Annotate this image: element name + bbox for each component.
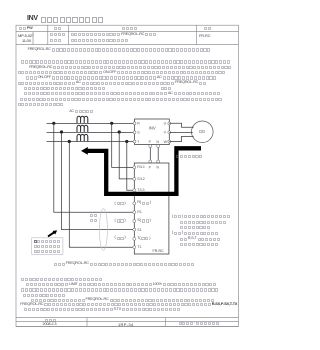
wire drop1 (54, 123, 135, 212)
pin R (133, 122, 136, 125)
pin W (168, 140, 171, 143)
pin T (133, 140, 136, 143)
wire tag label (115, 237, 127, 241)
pin T (133, 237, 136, 240)
wire drop3 (69, 142, 134, 248)
pin S1 (133, 228, 136, 231)
motor IM (192, 121, 214, 143)
pin S (133, 131, 136, 134)
AC reactor coil L2 (77, 125, 88, 132)
AC reactor label (69, 110, 94, 114)
wire drop6 (127, 142, 135, 191)
CT annotation text (90, 214, 98, 218)
wire tag label (115, 219, 127, 223)
pin S/L2 (133, 177, 136, 180)
pin R/L1 (133, 166, 136, 169)
pin T1 (133, 246, 136, 249)
wire phase 3 (47, 141, 77, 143)
node junction (60, 130, 63, 133)
wire drop4 (112, 123, 135, 167)
pin label T (137, 237, 151, 241)
inverter unit INV (135, 119, 170, 145)
pin circle (157, 160, 160, 163)
pin circle (157, 145, 160, 148)
wire tag label (115, 202, 127, 206)
wire P link (149, 145, 151, 164)
motor label IM (199, 130, 207, 134)
wire U-motor (169, 123, 193, 127)
node junction (68, 140, 71, 143)
annotation arrow (48, 232, 55, 237)
wire V-motor (169, 131, 193, 133)
node junction (125, 140, 128, 143)
pin circle (149, 145, 152, 148)
node junction (52, 122, 55, 125)
pin U (168, 122, 171, 125)
cable arrowhead (81, 147, 88, 155)
AC reactor coil L3 (77, 134, 88, 141)
CT ellipse (99, 209, 107, 251)
cable label (176, 155, 203, 159)
note box (32, 238, 63, 255)
page frame (16, 25, 239, 326)
pin label R (137, 202, 151, 206)
wire N link (157, 145, 159, 164)
thick cable route (87, 148, 202, 194)
pin label S/L2 (137, 177, 144, 181)
AC reactor coil L1 (77, 116, 88, 123)
pin label R/L1 (137, 165, 145, 169)
pin S (133, 220, 136, 223)
pin circle (149, 160, 152, 163)
wire drop2 (62, 132, 135, 229)
pin label S (137, 219, 151, 223)
converter unit FR-RC (134, 163, 169, 254)
note box text (34, 240, 61, 244)
pin V (168, 131, 171, 134)
footer table (16, 318, 239, 327)
pin T/L3 (133, 189, 136, 192)
pin label S1 (137, 228, 141, 232)
header table (16, 25, 239, 44)
pin R (133, 202, 136, 205)
wire W-motor (169, 136, 193, 141)
pin label T1 (137, 245, 141, 249)
wire phase 1 (47, 122, 77, 124)
node junction (110, 122, 113, 125)
wire phase 2 (47, 131, 77, 133)
node junction (118, 130, 121, 133)
pin label R1 (137, 210, 142, 214)
wire drop5 (119, 132, 134, 179)
pin R1 (133, 211, 136, 214)
pin label T/L3 (137, 188, 144, 192)
